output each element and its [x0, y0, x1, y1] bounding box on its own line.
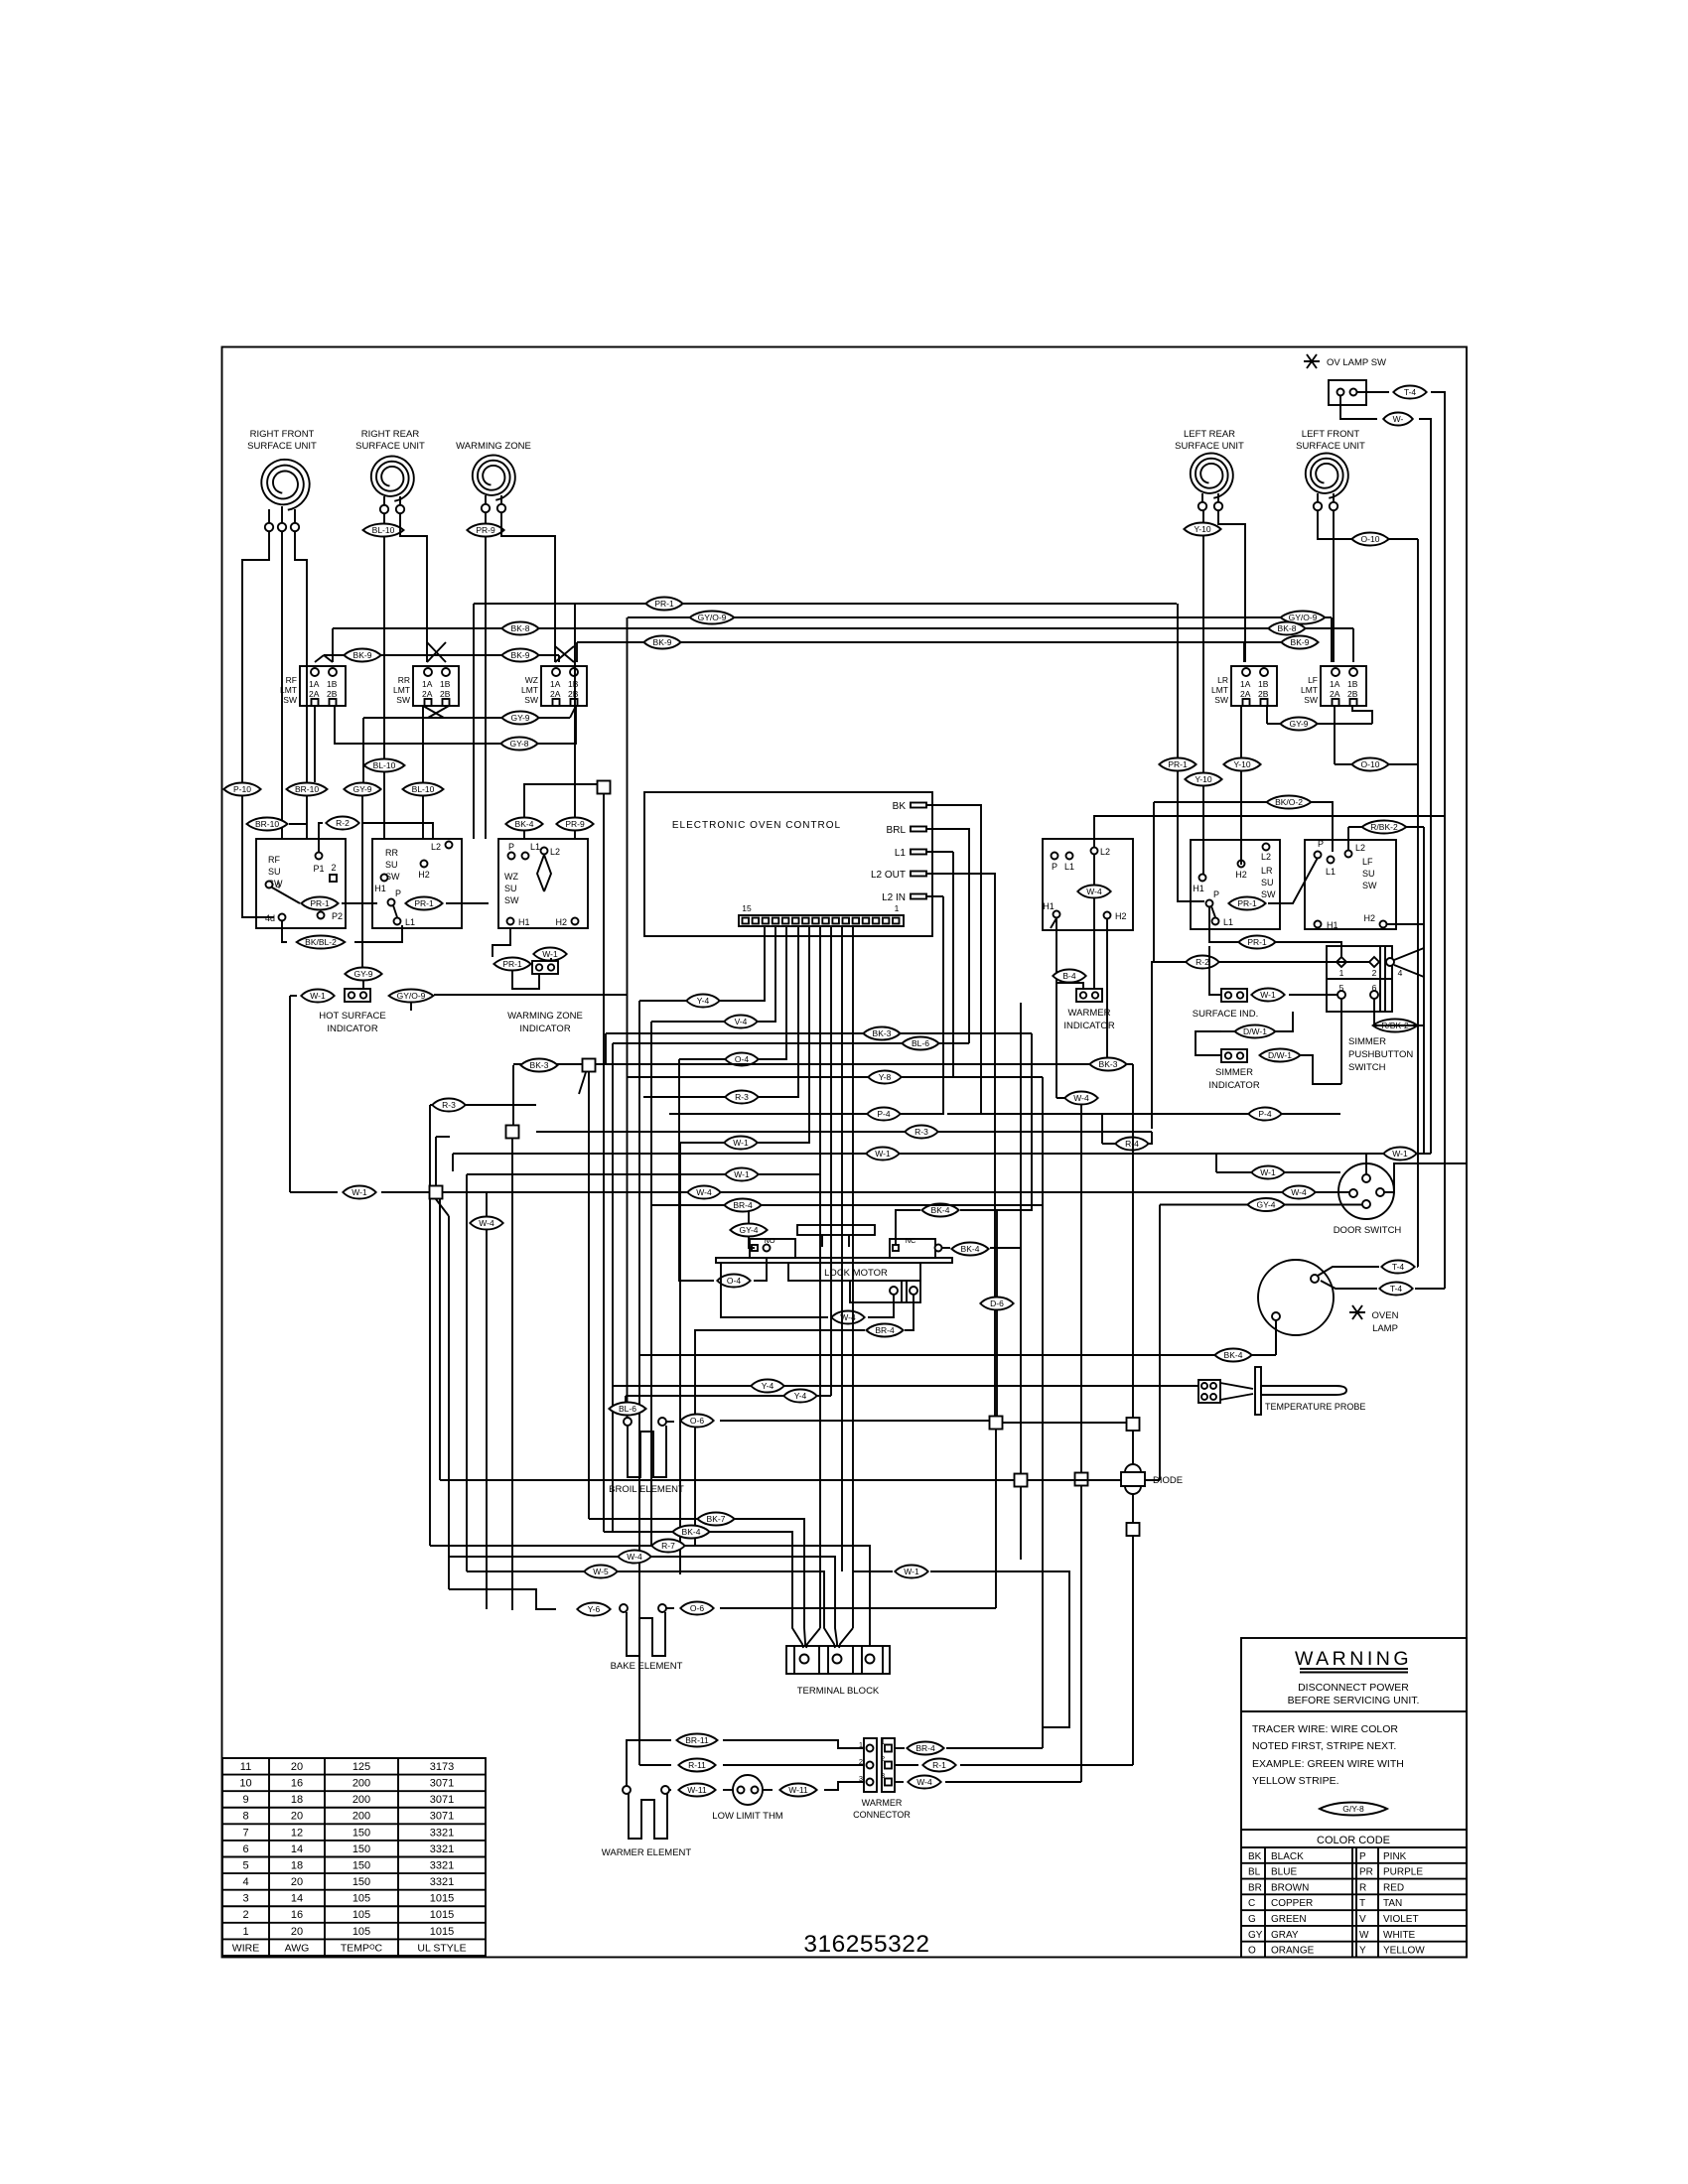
svg-text:BAKE ELEMENT: BAKE ELEMENT: [611, 1661, 683, 1672]
svg-text:BK-3: BK-3: [1099, 1059, 1118, 1069]
svg-text:18: 18: [291, 1794, 303, 1806]
coil right front surface unit: [261, 460, 309, 510]
svg-text:W-1: W-1: [310, 991, 326, 1001]
tp pin3: [1201, 1394, 1207, 1400]
svg-text:P-10: P-10: [233, 784, 251, 794]
svg-text:COPPER: COPPER: [1271, 1898, 1313, 1909]
wire BK-3 row: [606, 1032, 1032, 1034]
wire gy9 link: [423, 706, 444, 718]
svg-text:200: 200: [352, 1778, 370, 1790]
table row line 2: [222, 1790, 486, 1792]
svg-text:WZ: WZ: [525, 675, 538, 685]
wire lr lead r: [1217, 493, 1219, 502]
svg-text:7: 7: [242, 1827, 248, 1839]
wire DW1 row: [1221, 1030, 1234, 1032]
wire label Y-4 c: [783, 1390, 816, 1403]
wire wc br4 r: [946, 1747, 1043, 1749]
svg-text:G/Y-8: G/Y-8: [1342, 1804, 1364, 1814]
wire pr1 simmer r: [1276, 942, 1341, 957]
wire lf t2 down: [1333, 510, 1335, 662]
svg-text:W-11: W-11: [687, 1785, 707, 1795]
svg-text:SWITCH: SWITCH: [1348, 1062, 1386, 1073]
wire label PR-1 bus: [645, 598, 682, 611]
wire label D-6: [980, 1297, 1013, 1310]
svg-text:GY-9: GY-9: [510, 713, 529, 723]
svg-text:RED: RED: [1383, 1882, 1404, 1893]
table row line 9: [222, 1905, 486, 1907]
wire wzi drop: [512, 971, 539, 989]
wire label BR-4 lm: [866, 1324, 903, 1337]
wire label R-11: [678, 1759, 715, 1772]
svg-text:SW: SW: [504, 895, 519, 905]
rr h2 pin: [421, 861, 428, 868]
table row line 11: [222, 1938, 486, 1940]
svg-text:GY: GY: [1248, 1930, 1263, 1941]
wire label BK-9 bus b: [1281, 636, 1318, 649]
wire label BK-4 low: [672, 1526, 709, 1539]
wire P-4 row: [669, 896, 943, 1114]
wire rr t1 down: [383, 513, 385, 758]
wire label W-1 sfi: [1251, 989, 1284, 1002]
wire gy9 lf right: [1352, 706, 1372, 724]
wc pin2r: [885, 1762, 892, 1769]
terminal lf-2: [1330, 502, 1337, 510]
wire gy4 lm up: [748, 1205, 750, 1223]
svg-text:WIRE: WIRE: [232, 1942, 259, 1954]
svg-text:1B: 1B: [327, 679, 338, 689]
svg-text:WHITE: WHITE: [1383, 1930, 1416, 1941]
wire label W-4 a: [470, 1217, 502, 1230]
wire v439 up h: [436, 1136, 450, 1138]
svg-text:O: O: [1248, 1946, 1256, 1957]
rr p pin: [388, 899, 395, 906]
wire label T-4 (lamp sw): [1393, 386, 1426, 399]
svg-text:L1: L1: [1223, 917, 1233, 927]
wil pin2: [1092, 992, 1098, 998]
svg-text:PR-9: PR-9: [565, 819, 585, 829]
svg-text:BK-4: BK-4: [1224, 1350, 1243, 1360]
wire r11 r: [723, 1764, 864, 1766]
wire v685: [679, 1143, 681, 1574]
svg-text:ORANGE: ORANGE: [1271, 1946, 1315, 1957]
svg-text:BR-4: BR-4: [733, 1200, 753, 1210]
wz h2 pin: [572, 918, 579, 925]
svg-text:T: T: [1359, 1898, 1365, 1909]
lock motor nc pin: [893, 1245, 899, 1251]
wire BK-7 row: [589, 1519, 805, 1646]
svg-text:1A: 1A: [309, 679, 320, 689]
svg-text:1015: 1015: [430, 1909, 454, 1921]
table row line 5: [222, 1840, 486, 1842]
wire gy9 to hsi: [357, 981, 363, 989]
svg-text:R-2: R-2: [1196, 957, 1209, 967]
svg-text:L1: L1: [895, 848, 907, 859]
wire label V-4: [724, 1016, 757, 1028]
svg-text:200: 200: [352, 1811, 370, 1823]
svg-text:PR-1: PR-1: [1247, 937, 1267, 947]
wire bus BK-8 right drop: [1352, 628, 1354, 662]
wire eoc L2OUT out: [926, 874, 995, 1417]
svg-text:T-4: T-4: [1392, 1262, 1405, 1272]
svg-text:YELLOW: YELLOW: [1383, 1946, 1425, 1957]
tb v1: [793, 1646, 795, 1674]
wire label P-4 b: [1248, 1108, 1281, 1121]
svg-text:4: 4: [242, 1876, 248, 1888]
svg-text:BK-4: BK-4: [515, 819, 534, 829]
svg-text:LMT: LMT: [393, 685, 410, 695]
rf pin4: [266, 882, 273, 888]
svg-text:LEFT REAR: LEFT REAR: [1184, 429, 1235, 440]
lock motor stem: [821, 1235, 823, 1247]
svg-text:VIOLET: VIOLET: [1383, 1914, 1419, 1925]
table row line 1: [222, 1774, 486, 1776]
svg-text:R-1: R-1: [932, 1760, 946, 1770]
eoc terminal strip: [739, 915, 904, 926]
tb v4: [852, 1646, 854, 1674]
wire label D/W-1 a: [1235, 1025, 1276, 1038]
wire label GY-8: [500, 738, 537, 751]
svg-text:Y: Y: [1359, 1946, 1366, 1957]
simmer indicator box: [1221, 1049, 1247, 1062]
lock motor lower div2: [906, 1281, 908, 1302]
svg-text:GY-9: GY-9: [353, 969, 372, 979]
wire ovsw pin1 down: [1340, 395, 1377, 419]
lf p pin: [1315, 852, 1322, 859]
svg-text:2B: 2B: [440, 689, 451, 699]
wire bus GY-8: [335, 706, 576, 744]
broil pin1: [624, 1418, 632, 1426]
svg-text:BK-9: BK-9: [353, 650, 372, 660]
wire Y-6 row: [449, 1589, 556, 1609]
wire Y-8 row: [627, 1076, 1043, 1078]
low limit pin2: [752, 1787, 759, 1794]
svg-text:L1: L1: [1064, 862, 1074, 872]
svg-text:150: 150: [352, 1843, 370, 1855]
wire R-3 row c: [536, 1131, 1152, 1133]
wire label W-1 left: [343, 1186, 375, 1199]
wire wz x2: [555, 646, 574, 662]
svg-text:2: 2: [1372, 968, 1377, 978]
warning underline2: [1300, 1672, 1408, 1674]
svg-text:L2 OUT: L2 OUT: [871, 870, 906, 881]
wire w11 a: [669, 1789, 671, 1791]
lr h2 pin: [1238, 861, 1245, 868]
lock motor lower box: [850, 1281, 920, 1302]
eoc pin L2 OUT: [911, 872, 926, 877]
wire bk9b merge left2: [324, 655, 333, 662]
wi h1 pin: [1054, 911, 1060, 918]
terminal wz-1: [482, 504, 490, 512]
wire label GY-9 lf: [1280, 718, 1317, 731]
wire lf lmt 2a down: [1334, 706, 1336, 764]
wire v593: [588, 1072, 590, 1519]
wire label BL-10 mid: [364, 759, 405, 772]
wire label BK/BL-2: [297, 936, 346, 949]
svg-text:L2: L2: [1100, 847, 1110, 857]
wire label W-1 d: [1251, 1166, 1284, 1179]
wire smi left: [1196, 1031, 1221, 1055]
wire broil riser: [627, 617, 629, 1422]
svg-text:SURFACE UNIT: SURFACE UNIT: [355, 441, 425, 452]
wire bus BK-9a: [577, 641, 1311, 643]
wire label W-4 low: [618, 1551, 650, 1564]
switch RR LMT SW: [413, 666, 459, 706]
wire r11: [639, 1764, 671, 1766]
wire label BK-7: [697, 1513, 734, 1526]
wire wc r1 r: [960, 1764, 1133, 1766]
svg-text:TEMPOC: TEMPOC: [341, 1942, 383, 1954]
svg-text:2: 2: [331, 863, 336, 873]
terminal lr-1: [1198, 502, 1206, 510]
lf l2 pin: [1345, 851, 1352, 858]
wire gy9 lf row: [1267, 723, 1372, 725]
wire label W-1 hsi: [301, 990, 334, 1003]
svg-text:LR: LR: [1217, 675, 1228, 685]
svg-text:2A: 2A: [309, 689, 320, 699]
terminal rr-1: [380, 505, 388, 513]
svg-text:W-1: W-1: [875, 1149, 891, 1159]
wire lf t1 down: [1318, 510, 1418, 539]
wire v439 up: [435, 1137, 437, 1185]
wire d6 v: [996, 1310, 998, 1417]
svg-text:W-1: W-1: [352, 1187, 367, 1197]
svg-text:3071: 3071: [430, 1778, 454, 1790]
lock motor lower div: [901, 1281, 903, 1302]
svg-text:BR-4: BR-4: [875, 1325, 895, 1335]
svg-text:D-6: D-6: [990, 1298, 1004, 1308]
wire lr t2 down: [1218, 510, 1245, 662]
wzi pin2: [548, 964, 554, 970]
wire label PR-1 rf: [301, 897, 338, 910]
warmer el pin2: [661, 1786, 669, 1794]
border frame: [222, 347, 1468, 1958]
wire w1 left v: [289, 996, 291, 1192]
wire label Y-4 a: [686, 995, 719, 1008]
warner connector col2: [882, 1738, 895, 1792]
svg-text:BL-10: BL-10: [372, 525, 395, 535]
svg-text:YELLOW STRIPE.: YELLOW STRIPE.: [1252, 1775, 1339, 1787]
wire Y-4 row b: [613, 1385, 1198, 1387]
svg-text:150: 150: [352, 1876, 370, 1888]
wire BR-4 long: [651, 1204, 1043, 1206]
wire funnel 859: [839, 1628, 853, 1648]
svg-text:W-1: W-1: [734, 1169, 750, 1179]
svg-text:D/W-1: D/W-1: [1268, 1050, 1292, 1060]
wire label BK/O-2: [1267, 796, 1312, 809]
svg-text:W-4: W-4: [627, 1552, 642, 1562]
wire label GY-4 b: [1247, 1198, 1284, 1211]
wire w1 temp r: [930, 1571, 1069, 1727]
terminal rf-3: [291, 523, 299, 531]
wire w4 lm l: [721, 1263, 828, 1317]
svg-text:PR: PR: [1359, 1867, 1373, 1878]
svg-text:BL-10: BL-10: [412, 784, 435, 794]
wire bl10 mid h: [383, 758, 385, 839]
wire v433: [429, 1105, 431, 1546]
wire R-3 row b: [643, 927, 798, 1097]
wire bk3 sq diag: [579, 1072, 586, 1094]
rf pin2: [330, 875, 337, 882]
wire label P-4 a: [867, 1108, 900, 1121]
svg-text:W-4: W-4: [916, 1777, 932, 1787]
wire label GY/O-9 bus b: [1281, 612, 1326, 624]
wire ovsw to T-4: [1356, 391, 1389, 393]
svg-text:GY/O-9: GY/O-9: [397, 991, 426, 1001]
wire rr x1: [427, 642, 446, 662]
wire funnel 826: [806, 1628, 820, 1648]
svg-text:1B: 1B: [1258, 679, 1269, 689]
wire dw1b: [1301, 1055, 1341, 1084]
warning box frame: [1241, 1638, 1467, 1958]
wire label O-10 lf: [1351, 758, 1388, 771]
wz h1 pin: [507, 918, 514, 925]
table col line: [268, 1758, 270, 1956]
svg-text:O-10: O-10: [1361, 534, 1380, 544]
eoc pad 5: [853, 918, 860, 924]
wire gyo9 corner: [410, 1003, 412, 1011]
svg-text:L2: L2: [1261, 852, 1271, 862]
svg-text:W-4: W-4: [696, 1187, 712, 1197]
wire lr t1 down: [1202, 510, 1204, 874]
wire pr9b up: [574, 604, 576, 817]
color code header line: [1241, 1846, 1467, 1848]
wire rf coil lead mid: [281, 506, 283, 523]
wire wzi w1: [550, 958, 552, 961]
wz p pin: [508, 853, 515, 860]
svg-text:125: 125: [352, 1761, 370, 1773]
wire label BL-10 bottom: [403, 783, 444, 796]
wire W-4 row low: [449, 1557, 837, 1646]
wire label W- (lamp sw): [1383, 413, 1413, 426]
wire v1028: [1020, 1003, 1022, 1560]
svg-text:2: 2: [242, 1909, 248, 1921]
wire gy4 riser: [1159, 1205, 1161, 1481]
svg-text:TEMPERATURE PROBE: TEMPERATURE PROBE: [1265, 1402, 1365, 1412]
warming zone ind box: [532, 961, 558, 974]
svg-text:P: P: [1359, 1851, 1366, 1862]
wire eoc L1 out: [926, 851, 953, 853]
wc pin1r: [885, 1745, 892, 1752]
wire label G/Y-8 example: [1320, 1803, 1387, 1816]
svg-text:LOW LIMIT THM: LOW LIMIT THM: [712, 1811, 783, 1822]
svg-text:1A: 1A: [550, 679, 561, 689]
svg-text:GREEN: GREEN: [1271, 1914, 1307, 1925]
svg-text:W-4: W-4: [1291, 1187, 1307, 1197]
svg-text:TERMINAL BLOCK: TERMINAL BLOCK: [797, 1686, 880, 1697]
svg-text:BK-4: BK-4: [931, 1205, 950, 1215]
warmer ind lamp box: [1076, 989, 1102, 1002]
wire label BK-4 lamp: [1214, 1349, 1251, 1362]
svg-text:SURFACE UNIT: SURFACE UNIT: [1296, 441, 1365, 452]
svg-text:20: 20: [291, 1811, 303, 1823]
svg-text:GY-4: GY-4: [1256, 1200, 1275, 1210]
table col line: [397, 1758, 399, 1956]
svg-text:BK-8: BK-8: [511, 623, 530, 633]
svg-text:2A: 2A: [1240, 689, 1251, 699]
svg-text:150: 150: [352, 1859, 370, 1871]
svg-text:INDICATOR: INDICATOR: [1208, 1080, 1260, 1091]
lock motor stem2: [848, 1235, 850, 1247]
smi pin2: [1237, 1052, 1243, 1058]
wire bk4 lm2: [941, 1247, 950, 1249]
wire rbk2b h: [1374, 1024, 1424, 1026]
wire w11 b: [763, 1789, 773, 1791]
svg-text:BR-11: BR-11: [685, 1735, 709, 1745]
wire rr lead l: [383, 496, 385, 505]
svg-text:PR-1: PR-1: [654, 599, 674, 609]
eoc pad 2: [883, 918, 890, 924]
spb inner v1: [1379, 946, 1381, 1012]
svg-text:BK-8: BK-8: [1278, 623, 1297, 633]
wire label PR-9 wz: [556, 818, 593, 831]
surface ind box: [1221, 989, 1247, 1002]
svg-text:BLACK: BLACK: [1271, 1851, 1304, 1862]
svg-text:LMT: LMT: [521, 685, 538, 695]
wire label R/BK-2: [1362, 821, 1407, 834]
wire label PR-1 simmer: [1238, 936, 1275, 949]
svg-text:R-3: R-3: [914, 1127, 928, 1137]
wire label W-4 r: [1064, 1092, 1097, 1105]
wire label PR-1 wzi: [493, 958, 530, 971]
lr l1 pin: [1212, 918, 1219, 925]
rf p1 pin: [316, 853, 323, 860]
wire label PR-1 vert: [1159, 758, 1196, 771]
svg-text:18: 18: [291, 1859, 303, 1871]
wire r2 to p1: [319, 823, 323, 852]
svg-text:SW: SW: [1304, 695, 1318, 705]
sfi pin2: [1237, 992, 1243, 998]
wire wi h1 stub: [1056, 983, 1083, 990]
wire sq down: [603, 794, 605, 1532]
svg-text:BK/BL-2: BK/BL-2: [305, 937, 337, 947]
svg-text:H1: H1: [374, 884, 386, 893]
wire rf t1 down: [242, 531, 269, 782]
switch RR SU SW box: [372, 839, 462, 928]
svg-text:O-6: O-6: [690, 1603, 704, 1613]
wire Y-4 row c: [626, 1395, 831, 1397]
svg-text:12: 12: [291, 1827, 303, 1839]
rf switch arm: [272, 887, 300, 903]
svg-text:C: C: [1248, 1898, 1255, 1909]
svg-text:BK-3: BK-3: [530, 1060, 549, 1070]
wire sfi link: [1289, 994, 1337, 996]
spb divider: [1327, 978, 1392, 980]
svg-text:1: 1: [242, 1926, 248, 1938]
svg-text:10: 10: [239, 1778, 251, 1790]
svg-text:105: 105: [352, 1909, 370, 1921]
lock motor nc pin3: [935, 1245, 942, 1252]
door sw pin r: [1376, 1188, 1384, 1196]
wire label Y-10 b: [1223, 758, 1260, 771]
wire O-10 lf row: [1335, 763, 1418, 765]
wire label W-1 c: [725, 1168, 758, 1181]
wire rbk2b: [1373, 999, 1375, 1025]
svg-text:DISCONNECT POWER: DISCONNECT POWER: [1298, 1682, 1409, 1694]
wire wc br4: [895, 1747, 905, 1749]
junction w4r: [1075, 1473, 1088, 1486]
switch LF LMT SW: [1321, 666, 1366, 706]
wire o6 bake row: [720, 1607, 996, 1609]
wire t4b r: [1415, 1288, 1445, 1290]
wire rf coil lead right: [294, 509, 296, 523]
warmer indicator box: [1043, 839, 1133, 930]
temp probe taper1: [1220, 1383, 1253, 1389]
svg-text:W-5: W-5: [593, 1567, 609, 1576]
wire bus GY-9 mid: [363, 717, 570, 719]
wire diode v: [1132, 1064, 1134, 1765]
svg-text:P-4: P-4: [1258, 1109, 1272, 1119]
svg-text:P-4: P-4: [877, 1109, 891, 1119]
